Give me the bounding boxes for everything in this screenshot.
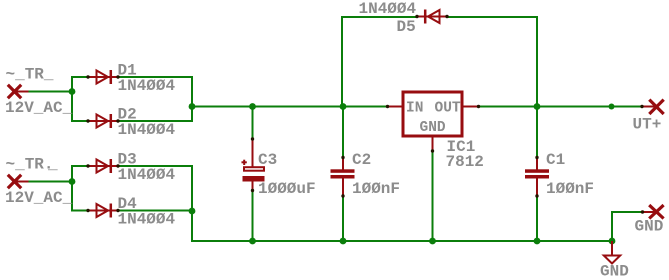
- wire: main rail to regulator input: [192, 106, 388, 108]
- svg-text:~_TR.: ~_TR.: [6, 156, 54, 174]
- svg-text:GND: GND: [420, 120, 446, 136]
- svg-text:1ØØnF: 1ØØnF: [352, 180, 400, 198]
- wire: C3 bottom: [252, 191, 254, 242]
- diode D4: [86, 204, 119, 218]
- svg-text:D5: D5: [397, 18, 416, 36]
- capacitor C1: [525, 156, 549, 198]
- svg-text:UT+: UT+: [633, 116, 662, 134]
- junction node (343,241): [340, 238, 347, 245]
- wire: D4 cathode to output: [117, 210, 192, 212]
- wire: D4 anode stub: [71, 210, 89, 212]
- pin dot UT+: [640, 105, 643, 108]
- junction node (72,181.5): [69, 178, 76, 185]
- junction node (343,106.5): [340, 103, 347, 110]
- svg-text:1ØØØuF: 1ØØØuF: [258, 180, 316, 198]
- wire: D2 cathode to output: [117, 120, 192, 122]
- diode D5 (points left): [415, 10, 448, 24]
- op-amp: voltage regulator IC1 box: [386, 92, 480, 153]
- pin dot UT+ wire (611.5,106.5): [609, 104, 615, 110]
- wire: lower bridge right vertical down to ground rail: [191, 165, 193, 242]
- ground symbol bottom: [604, 241, 620, 264]
- pin X GND right: [642, 205, 664, 218]
- wire: D1 anode stub: [71, 76, 89, 78]
- svg-text:~_TR_: ~_TR_: [6, 66, 54, 84]
- wire: top rail right of D5: [446, 16, 538, 18]
- pin X lower AC input: [8, 175, 29, 188]
- svg-text:1ØØnF: 1ØØnF: [546, 180, 594, 198]
- svg-text:GND: GND: [600, 263, 629, 280]
- wire: C2 top: [342, 106, 344, 158]
- junction node (192,106.5): [189, 103, 196, 110]
- junction node (72,91.5): [69, 88, 76, 95]
- svg-text:C1: C1: [546, 151, 565, 169]
- svg-text:7812: 7812: [446, 153, 484, 171]
- wire: D3 cathode to output: [117, 165, 192, 167]
- wire: lower AC input to bridge: [28, 181, 72, 183]
- svg-text:1N4ØØ4: 1N4ØØ4: [359, 0, 417, 18]
- svg-text:1N4ØØ4: 1N4ØØ4: [118, 77, 176, 95]
- pin X upper AC input: [8, 85, 29, 98]
- svg-text:1N4ØØ4: 1N4ØØ4: [118, 121, 176, 139]
- wire: C1 bottom: [536, 196, 538, 241]
- junction node (537,241): [534, 238, 541, 245]
- wire: upper bridge right vertical: [191, 76, 193, 122]
- wire: upper AC input to bridge: [28, 91, 72, 93]
- wire: regulator output to UT+: [479, 106, 642, 108]
- wire: top rail left of D5: [342, 16, 418, 18]
- svg-text:1N4ØØ4: 1N4ØØ4: [118, 211, 176, 229]
- wire: C2 bottom: [342, 196, 344, 241]
- junction node (537,106.5): [534, 103, 541, 110]
- diode D2: [86, 114, 119, 128]
- wire: regulator ground to rail: [432, 152, 434, 242]
- wire: top rail right vertical: [536, 16, 538, 107]
- wire: bottom ground rail: [191, 240, 613, 242]
- wire: D1 cathode to output: [117, 76, 192, 78]
- junction node (252.5,106.5): [249, 103, 256, 110]
- wire: lower bridge left vertical: [71, 165, 73, 212]
- junction node (252.5,241): [249, 238, 256, 245]
- svg-text:1N4ØØ4: 1N4ØØ4: [118, 166, 176, 184]
- wire: C1 top: [536, 106, 538, 158]
- diode D1: [86, 70, 119, 84]
- wire: D2 anode stub: [71, 120, 89, 122]
- svg-text:12V_AC_: 12V_AC_: [5, 99, 73, 117]
- capacitor C3 (polarized): [242, 137, 265, 192]
- wire: top rail left vertical: [341, 16, 343, 107]
- junction node (432.5,241): [429, 238, 436, 245]
- wire: C3 top: [252, 106, 254, 139]
- wire: GND pin horizontal: [611, 211, 641, 213]
- svg-text:GND: GND: [635, 218, 664, 236]
- junction node (612,241): [609, 238, 616, 245]
- svg-text:C3: C3: [258, 151, 277, 169]
- svg-text:OUT: OUT: [435, 101, 461, 117]
- svg-text:C2: C2: [352, 151, 371, 169]
- svg-text:12V_AC_: 12V_AC_: [5, 189, 73, 207]
- pin dot GND right: [641, 210, 644, 213]
- wire: D3 anode stub: [71, 165, 89, 167]
- pin X UT+ output: [641, 100, 664, 114]
- junction node (192,211): [189, 208, 196, 215]
- svg-text:_: _: [47, 156, 58, 174]
- wire: GND pin vertical: [611, 211, 613, 242]
- diode D3: [86, 159, 119, 173]
- wire: upper bridge left vertical: [71, 76, 73, 122]
- capacitor C2: [331, 156, 355, 198]
- svg-text:IN: IN: [406, 101, 423, 117]
